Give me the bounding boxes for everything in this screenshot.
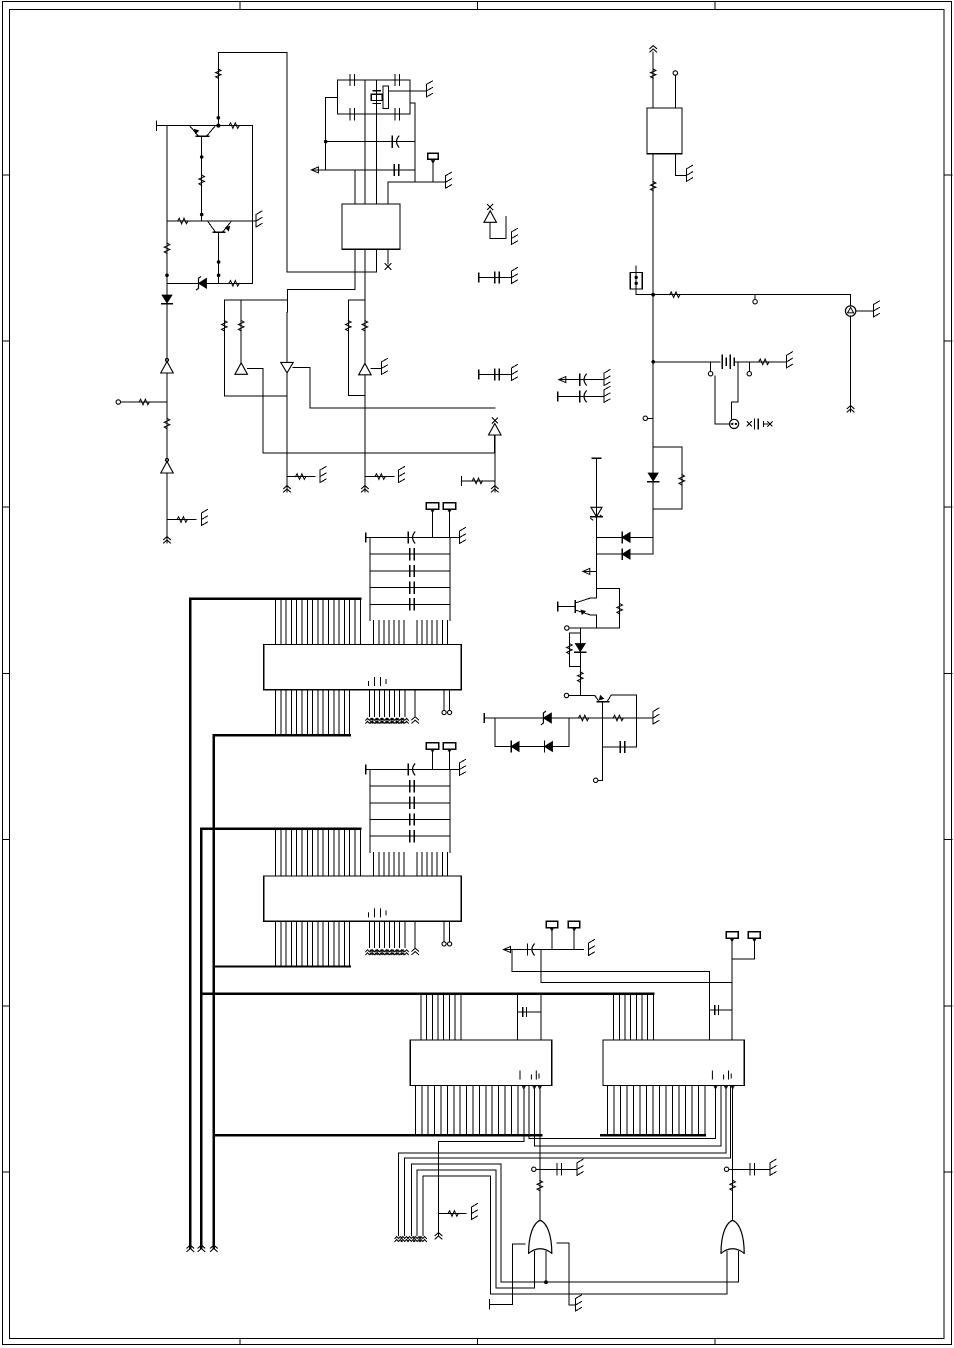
wire pin2 tail: [364, 375, 366, 492]
terminal circle: [594, 778, 598, 782]
resistor R25: [448, 1211, 458, 1217]
capacitor CU44: [409, 831, 411, 842]
resistor R15: [375, 474, 385, 480]
resistor R20: [617, 604, 623, 614]
diode D8 (triangle with X): [489, 424, 502, 436]
resistor R4: [178, 218, 188, 224]
wire to diode rails: [652, 509, 654, 554]
pin-1 ticks U5: [520, 1071, 539, 1079]
capacitor C15 to ground: [540, 1168, 577, 1170]
bus rail U3 bottom: [214, 734, 350, 736]
capacitor C10 (polarized): [558, 395, 604, 397]
capacitor C3: [349, 109, 351, 120]
long pin U6-e to gate: [731, 1087, 734, 1089]
wire stub resistor-ground: [439, 1213, 467, 1215]
power chevron VCC: [650, 46, 657, 49]
resistor R3: [199, 175, 205, 185]
ground: [575, 1299, 577, 1312]
wire osc loop right: [409, 80, 411, 114]
diode D7 (triangle): [359, 363, 372, 375]
bus line C: [213, 735, 215, 1248]
wire box bottom: [224, 395, 286, 397]
pin-1 tick marks inside U4: [369, 909, 387, 917]
terminal circle stub: [754, 295, 756, 300]
oscillator IC U1: [342, 204, 400, 249]
diode rail 1: [597, 536, 654, 538]
wire branch: [348, 300, 365, 396]
wire crystal case to ground: [388, 90, 426, 92]
wire lower loop: [495, 718, 569, 747]
wire ladder rung 3: [370, 819, 450, 821]
pins top comb U6: [613, 994, 615, 1040]
capacitor C7 to ground: [479, 277, 512, 279]
wire osc pin2: [364, 80, 366, 204]
wire G1 left bracket stub: [489, 1244, 525, 1305]
bus line B: [200, 829, 202, 1248]
microphone MK1: [730, 419, 739, 428]
wire signal row with arrow: [504, 949, 584, 951]
wire sounder down: [850, 316, 852, 412]
resistor R23: [578, 715, 588, 721]
ferrite bead FB2: [651, 182, 656, 191]
wire left rail of osc: [326, 97, 338, 170]
wire sounder ground: [856, 310, 874, 312]
combo D14 parallel R21: [569, 633, 580, 667]
wire G1 output: [539, 1181, 541, 1221]
diode D16: [511, 742, 519, 752]
wire net U5a-left: [439, 1142, 524, 1236]
wire mic bias: [715, 376, 730, 424]
no-connect X: [385, 264, 391, 270]
power chevron: [187, 1245, 194, 1248]
resistor R5: [229, 281, 239, 287]
wire ground row: [388, 181, 446, 183]
pins top-right group U4: [416, 853, 418, 876]
wire box leg2: [240, 300, 242, 363]
wire junction row: [569, 627, 620, 629]
terminal circle: [673, 71, 677, 75]
buzzer gate G1: [529, 1220, 552, 1253]
pins top-middle group U3: [373, 621, 375, 645]
long pin U5-c: [533, 1087, 536, 1090]
bus rail U4 bottom: [214, 965, 350, 967]
wire left rail: [166, 126, 168, 284]
wire main rail down: [652, 295, 654, 447]
capacitor CU34: [409, 599, 411, 610]
diode D17: [545, 742, 553, 752]
ground: [652, 712, 654, 725]
wire chain down: [596, 571, 598, 598]
wire Q4 collector: [611, 695, 636, 718]
buzzer gate G2: [721, 1220, 744, 1253]
junction dot: [200, 155, 204, 159]
pins bottom comb U6: [607, 1085, 609, 1135]
wire cap ladder top U3: [366, 537, 460, 539]
wire Q4 base down: [601, 702, 603, 772]
long pin U5-d to gate: [538, 1087, 541, 1090]
wire ladder left rail: [369, 538, 371, 621]
resistor R1: [164, 243, 170, 253]
connector pad: [426, 503, 439, 510]
terminal circle: [710, 362, 712, 372]
wire Q2 emitter: [218, 232, 220, 283]
squiggle terminator: [408, 1237, 415, 1239]
wire: [166, 402, 168, 461]
terminal circle: [116, 400, 120, 404]
wire nest 1: [399, 1152, 727, 1154]
terminal end cap: [155, 121, 157, 130]
ground: [319, 470, 321, 483]
capacitor CU42: [409, 797, 411, 808]
wire stub resistor-ground: [287, 476, 315, 478]
resistor R9: [177, 517, 187, 523]
gate G1 input net row H1: [501, 1281, 738, 1283]
wire right rail: [251, 126, 253, 284]
terminal circle: [565, 626, 569, 630]
power chevron: [435, 1233, 442, 1236]
junction dot: [216, 124, 220, 128]
wire top pin rail from bus: [190, 598, 360, 600]
power chevron: [210, 1245, 217, 1248]
wire arrow stub: [583, 570, 597, 572]
wire net U5b-U6a: [529, 1138, 715, 1140]
pin single chevron U4: [414, 921, 416, 948]
gate G1 input net row H2: [496, 1287, 534, 1289]
wire bottom rail: [167, 282, 252, 284]
wire osc loop left: [336, 80, 338, 114]
wire osc pin3: [376, 80, 378, 204]
resistor R27: [730, 1180, 736, 1190]
connector pad: [568, 921, 580, 927]
wire stub resistor-ground: [365, 476, 394, 478]
wire ladder rung 3: [370, 587, 450, 589]
wire ladder rung 1: [370, 785, 450, 787]
resistor R14: [362, 321, 368, 331]
wire ladder rung 4: [370, 603, 450, 605]
capacitor CU41: [409, 781, 411, 792]
wire nest 2: [405, 1157, 731, 1159]
ground: [398, 470, 400, 483]
ground: [459, 531, 461, 544]
wire U2 out: [652, 154, 654, 295]
connector pad: [426, 743, 439, 750]
resistor R8: [164, 418, 170, 428]
zener diode D13: [591, 507, 602, 517]
transistor Q1: [197, 135, 209, 137]
power chevron: [198, 1245, 205, 1248]
wire base jog to pin: [598, 772, 602, 780]
wire ladder rung 1: [370, 553, 450, 555]
wire leg3 down: [286, 300, 288, 363]
diode D4 (triangle): [161, 462, 174, 474]
pin single chevron U3: [414, 690, 416, 717]
resistor R6: [216, 69, 221, 78]
pins bottom-middle squiggle group U4: [368, 921, 370, 948]
ground: [603, 390, 605, 403]
ferrite bead FB1: [651, 69, 656, 78]
ground: [603, 373, 605, 386]
transistor Q3: [574, 601, 576, 612]
ground: [686, 169, 688, 182]
wire branch resistor: [597, 589, 620, 629]
capacitor C2: [394, 75, 396, 86]
wire U2 ground pin: [675, 154, 686, 176]
wire stub resistor: [461, 480, 494, 482]
ground: [511, 368, 513, 381]
pins top-left comb U4: [275, 829, 277, 876]
wire U1 pin down 2: [364, 249, 366, 299]
wire top pin rail from bus: [201, 828, 360, 830]
wire U5 cap leg 2: [540, 994, 542, 1040]
squiggle terminator: [401, 1237, 408, 1239]
wire to sounder: [850, 295, 852, 306]
pins bottom-left comb U3: [275, 690, 277, 735]
capacitor C14: [710, 1009, 733, 1011]
wire Q1 collector chain: [201, 136, 203, 221]
wire stub to ground: [167, 519, 196, 521]
junction dot: [651, 360, 655, 364]
bus rail U5 bottom: [214, 1134, 542, 1136]
wire G2 inputs: [726, 1252, 728, 1294]
ground: [511, 271, 513, 284]
wire net drop 2: [541, 950, 732, 983]
connector pad: [748, 932, 760, 939]
diode D5 (triangle): [235, 363, 248, 375]
wire G1 inputs: [534, 1252, 536, 1289]
resistor R10: [222, 321, 228, 331]
terminal circle: [748, 362, 750, 372]
combo D10 parallel R19: [653, 447, 682, 509]
wire osc loop bottom: [337, 113, 410, 115]
sounder LS1: [845, 306, 855, 316]
wire mid rail: [167, 220, 256, 222]
wire net to box: [287, 290, 355, 300]
pin-1 ticks U6: [712, 1071, 731, 1079]
wire: [166, 373, 168, 402]
terminal circle: [729, 1168, 733, 1170]
pins circle terminals U4: [443, 921, 445, 942]
wire input row: [311, 169, 415, 171]
wire D7 ground stub: [371, 367, 381, 369]
bus net B long row: [201, 993, 653, 995]
wire feed from above: [218, 52, 287, 272]
crystal Y1: [373, 90, 380, 92]
zener diode D1: [199, 278, 207, 288]
capacitor bank U4 C-top (polarized): [407, 764, 409, 775]
capacitor bank U3 C-top (polarized): [407, 532, 409, 543]
ground: [471, 1207, 473, 1220]
arrow input: [311, 167, 318, 173]
resistor R24: [613, 715, 623, 721]
fuse F1: [635, 266, 637, 295]
wire power row: [636, 294, 850, 296]
connector pad: [726, 932, 738, 939]
test point TP1: [428, 153, 438, 159]
capacitor C12 (polarized): [527, 944, 529, 955]
wire feed to U1 pin: [287, 271, 377, 273]
wire osc loop top: [337, 79, 410, 81]
capacitor C6: [393, 164, 395, 175]
wire joiner: [348, 395, 365, 397]
squiggle terminator: [419, 1237, 426, 1239]
diode D11: [622, 532, 630, 542]
junction dot: [544, 1280, 548, 1284]
wire nest 3: [411, 1164, 501, 1282]
wire net U5c-U6b: [534, 1145, 721, 1147]
wire mic drive: [731, 362, 738, 419]
ground: [511, 232, 513, 245]
wire: [166, 473, 168, 543]
ground: [459, 763, 461, 776]
resistor R22: [578, 672, 584, 682]
capacitor C1: [349, 75, 351, 86]
bus line A: [189, 599, 191, 1248]
wire cap ladder top U4: [366, 768, 460, 770]
resistor R17: [670, 292, 680, 298]
pins circle terminals U3: [443, 690, 445, 711]
pins bottom comb U5: [414, 1085, 416, 1135]
long pin U6-d: [730, 1085, 732, 1158]
junction dot: [217, 260, 221, 264]
terminal circle: [536, 1168, 540, 1170]
wire U6 cap leg 2: [731, 959, 733, 1040]
wire right rail of osc: [410, 103, 415, 182]
terminal circle: [648, 417, 654, 419]
resistor R11: [238, 321, 244, 331]
wire U1 pin2 chain: [364, 300, 366, 364]
ground: [872, 305, 874, 318]
regulator U2: [647, 108, 682, 154]
long pin U5-b: [528, 1085, 530, 1138]
diode D9 (triangle with X) to ground: [484, 211, 497, 223]
squiggle terminator: [395, 1237, 402, 1239]
junction dot: [324, 140, 328, 144]
pins top comb U5: [420, 994, 422, 1040]
diode rail 2: [597, 553, 654, 555]
ground: [201, 513, 203, 526]
wire right leg tail: [494, 453, 496, 492]
ground: [786, 355, 788, 368]
pins bottom-left comb U4: [275, 921, 277, 966]
wire U1 pin down 1: [354, 249, 356, 289]
wire top rail of bias block: [156, 125, 252, 127]
IC U-U4 box: [264, 876, 462, 921]
junction dot: [217, 116, 221, 120]
connector pad: [443, 743, 456, 750]
resistor R16: [472, 478, 482, 484]
ground: [769, 1163, 771, 1176]
wire ladder rung 4: [370, 835, 450, 837]
ground: [426, 84, 428, 97]
wire box top: [224, 299, 287, 301]
wire box leg1: [223, 300, 225, 396]
power chevron: [847, 406, 854, 409]
long pin U6-c: [725, 1087, 728, 1090]
power chevron: [491, 486, 498, 489]
pins top-middle group U4: [373, 853, 375, 876]
capacitor C16 to ground: [733, 1168, 770, 1170]
capacitor CU43: [409, 814, 411, 825]
wire Q3 base: [558, 606, 576, 608]
capacitor CU32: [409, 565, 411, 576]
bus rail U6 bottom: [601, 1134, 705, 1136]
capacitor C4: [394, 109, 396, 120]
wire ladder left rail: [369, 769, 371, 852]
wire bias row: [484, 717, 653, 719]
wire ladder rung 2: [370, 802, 450, 804]
wire cap C5 row: [326, 141, 415, 143]
terminal circle: [564, 693, 568, 697]
wire battery right: [734, 361, 786, 363]
transistor Q4: [597, 701, 609, 703]
capacitor C11: [602, 746, 636, 748]
power chevron: [284, 486, 291, 489]
battery BT1: [721, 355, 723, 368]
wire U6 cap leg 1: [709, 972, 711, 1040]
wire net drop 1: [512, 950, 710, 1040]
wire G2 output: [732, 1181, 734, 1221]
long pin U6-a: [714, 1087, 717, 1090]
wire from D5: [247, 368, 494, 453]
diode D12: [622, 549, 630, 559]
wire input stub: [121, 401, 168, 403]
diode D15: [543, 713, 551, 723]
IC U5 box: [410, 1040, 552, 1086]
ground: [576, 1163, 578, 1176]
junction dot: [651, 293, 655, 297]
capacitor C5 (polarized): [391, 136, 393, 147]
wire Q3 emitter: [596, 589, 598, 599]
diode D2: [162, 295, 172, 303]
pins bottom-middle squiggle group U3: [368, 690, 370, 717]
connector pad: [443, 503, 456, 510]
pin-1 tick marks inside U3: [369, 678, 387, 686]
wire left chain: [166, 283, 168, 360]
wire junction row 2: [569, 695, 595, 697]
wire ladder rung 2: [370, 570, 450, 572]
resistor R18: [759, 359, 769, 365]
ground: [588, 943, 590, 956]
power chevron: [164, 537, 171, 540]
ground: [255, 215, 257, 228]
resistor R26: [537, 1180, 543, 1190]
wire ladder right rail: [449, 769, 451, 852]
wire nest 4: [417, 1170, 496, 1288]
capacitor CU31: [409, 549, 411, 560]
capacitor C8 to ground: [479, 374, 512, 376]
resistor R2: [229, 123, 239, 129]
capacitor CU33: [409, 582, 411, 593]
transistor Q2: [214, 231, 225, 233]
diode D6 (triangle down): [281, 362, 294, 373]
wire cap leg: [636, 718, 638, 747]
ground: [381, 362, 383, 375]
wire VCC to U2: [652, 52, 654, 108]
resistor R7: [139, 399, 149, 405]
junction dot: [165, 274, 169, 278]
crystal resonator marks: [747, 422, 751, 426]
squiggle terminator: [414, 1237, 421, 1239]
junction dot: [200, 213, 204, 217]
wire left chain top: [596, 458, 598, 571]
resistor R13: [345, 321, 351, 331]
wire leg3 tail: [286, 396, 288, 492]
IC U-U3 box: [264, 645, 462, 690]
wire U1 pin nc: [387, 249, 389, 264]
wire nest 5: [423, 1176, 491, 1294]
IC U6 box: [603, 1040, 744, 1086]
ground: [445, 176, 447, 189]
